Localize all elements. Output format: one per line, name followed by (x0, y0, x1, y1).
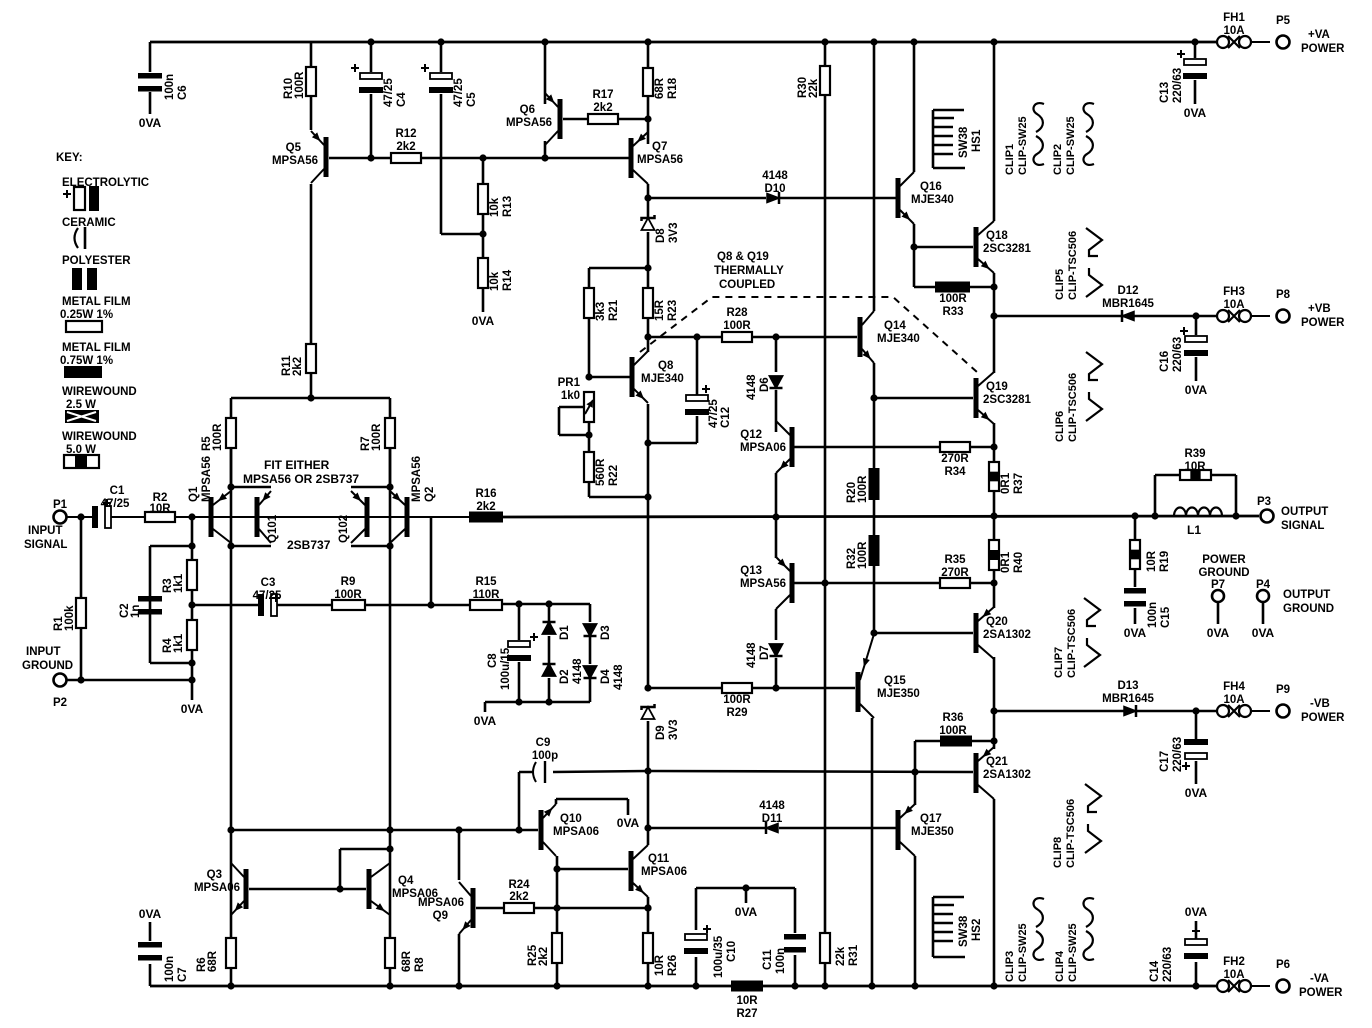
svg-text:110R: 110R (473, 589, 501, 601)
svg-text:0VA: 0VA (472, 314, 495, 328)
capacitor C5 47/25 (430, 73, 452, 79)
svg-text:100u/15: 100u/15 (500, 647, 512, 690)
svg-text:1k1: 1k1 (173, 573, 185, 593)
svg-text:220/63: 220/63 (1172, 737, 1184, 772)
svg-text:Q19: Q19 (986, 381, 1008, 393)
fuse FH4 10A (1217, 705, 1229, 717)
svg-text:100n: 100n (1147, 602, 1159, 628)
transistor Q101 2SB737 (255, 497, 260, 537)
resistor R21 3k3 (584, 288, 594, 318)
wire: Q10 collector to Q11 base y=869 (557, 868, 628, 871)
svg-text:R15: R15 (475, 576, 497, 588)
wire: R5 column (230, 398, 233, 487)
svg-text:10R: 10R (1184, 461, 1206, 473)
resistor R23 15R (643, 288, 653, 318)
wire: P2 to divider (67, 679, 192, 682)
heatsink HS1 (933, 110, 965, 168)
svg-text:C11: C11 (762, 949, 774, 970)
svg-text:+VB: +VB (1308, 303, 1331, 315)
capacitor C8 100u/15 (508, 641, 530, 647)
wire: Q13 collector to D7 to Q15 base node (775, 609, 778, 688)
transistor Q14 MJE340 (858, 317, 863, 357)
key wirewound 5.0W symbol (64, 455, 99, 468)
svg-text:D13: D13 (1117, 680, 1138, 692)
transistor Q12 MPSA06 (790, 427, 795, 467)
resistor R28 100R (722, 332, 752, 342)
svg-text:POWER: POWER (1301, 43, 1345, 55)
svg-text:CLIP-SW25: CLIP-SW25 (1065, 116, 1077, 175)
svg-text:POWER: POWER (1299, 987, 1343, 999)
svg-text:D1: D1 (559, 625, 571, 640)
svg-text:C17: C17 (1159, 751, 1171, 772)
svg-text:CLIP-SW25: CLIP-SW25 (1017, 116, 1029, 175)
resistor R20 100R (869, 468, 880, 500)
wire: x=874 column rail->Q14->R20->R32->Q15 (873, 42, 876, 633)
svg-text:CLIP5: CLIP5 (1054, 269, 1066, 300)
diode D7 4148 (770, 644, 783, 656)
terminal P7 (1212, 590, 1224, 602)
svg-text:10R: 10R (1146, 550, 1158, 572)
svg-text:R23: R23 (667, 300, 679, 321)
diode D1 4148 (543, 622, 556, 634)
wire: LTP tail y=398 (231, 397, 390, 400)
svg-text:POWER: POWER (1301, 317, 1345, 329)
svg-text:MJE340: MJE340 (877, 333, 920, 345)
svg-text:Q102: Q102 (338, 515, 350, 543)
svg-text:MJE340: MJE340 (641, 373, 684, 385)
resistor R34 270R (940, 442, 970, 452)
transistor Q2 MPSA56 (405, 497, 410, 537)
capacitor C12 47/25 (686, 395, 708, 401)
svg-text:C9: C9 (536, 737, 551, 749)
wire: Q9 base to R24 (476, 907, 648, 910)
svg-text:MPSA06: MPSA06 (418, 897, 464, 909)
svg-text:R28: R28 (726, 307, 748, 319)
transistor Q4 MPSA06 (367, 869, 372, 909)
resistor R29 100R (722, 683, 752, 693)
svg-text:D3: D3 (600, 625, 612, 640)
svg-text:270R: 270R (941, 567, 969, 579)
svg-text:CLIP7: CLIP7 (1053, 647, 1065, 678)
svg-text:MPSA06: MPSA06 (740, 442, 786, 454)
svg-text:D4: D4 (600, 669, 612, 684)
svg-text:C3: C3 (261, 577, 276, 589)
transistor Q15 MJE350 (856, 672, 861, 712)
svg-text:GROUND: GROUND (1283, 603, 1334, 615)
wire: y=772 wire from x=648 to Q21 base (648, 771, 973, 772)
svg-text:4148: 4148 (746, 374, 758, 400)
svg-text:P3: P3 (1257, 496, 1271, 508)
terminal P9 (1277, 705, 1290, 718)
svg-text:Q1: Q1 (188, 486, 200, 502)
terminal P8 (1277, 310, 1290, 323)
svg-text:MPSA56: MPSA56 (506, 117, 552, 129)
svg-text:CERAMIC: CERAMIC (62, 217, 116, 229)
svg-text:10A: 10A (1223, 25, 1244, 37)
svg-text:C7: C7 (177, 967, 189, 982)
key electrolytic symbol (63, 190, 71, 198)
svg-text:OUTPUT: OUTPUT (1281, 506, 1328, 518)
resistor R32 100R (869, 535, 880, 566)
svg-text:100R: 100R (371, 423, 383, 451)
terminal P4 (1257, 590, 1269, 602)
resistor R1 100k (76, 598, 86, 628)
svg-text:OUTPUT: OUTPUT (1283, 589, 1330, 601)
svg-text:100R: 100R (334, 589, 362, 601)
svg-text:100R: 100R (723, 694, 751, 706)
resistor R6 68R (226, 938, 236, 968)
wire: R21/PR1/R22 column x=589 (589, 268, 648, 497)
svg-text:SW38: SW38 (958, 126, 970, 158)
wire: Q15 collector column x=872 to rail (871, 718, 874, 986)
svg-text:Q8 & Q19: Q8 & Q19 (717, 251, 769, 263)
svg-text:Q5: Q5 (286, 142, 302, 154)
svg-text:CLIP-TSC506: CLIP-TSC506 (1066, 609, 1078, 678)
transistor Q17 MJE350 (896, 810, 901, 850)
diode D6 4148 (770, 376, 783, 388)
svg-text:2.5 W: 2.5 W (66, 399, 96, 411)
schematic wires: +VA top rail (150, 41, 1217, 44)
wire: PR1 wiper loop (559, 407, 589, 435)
resistor R19 10R (1130, 540, 1140, 569)
svg-text:FH2: FH2 (1223, 956, 1245, 968)
svg-text:0VA: 0VA (1185, 786, 1208, 800)
svg-text:R22: R22 (608, 465, 620, 486)
svg-text:0.25W 1%: 0.25W 1% (60, 309, 113, 321)
svg-text:D7: D7 (759, 645, 771, 660)
transistor Q1 MPSA56 (209, 497, 214, 537)
svg-text:0VA: 0VA (1185, 905, 1208, 919)
resistor R5 100R (226, 418, 236, 448)
svg-text:10A: 10A (1223, 299, 1244, 311)
svg-text:100R: 100R (723, 320, 751, 332)
fuse FH1 10A (1217, 36, 1229, 48)
svg-text:R33: R33 (942, 306, 963, 318)
svg-text:0VA: 0VA (1252, 626, 1275, 640)
svg-text:Q13: Q13 (740, 565, 762, 577)
diode D4 4148 (584, 666, 597, 678)
svg-text:2k2: 2k2 (292, 357, 304, 376)
svg-text:2SC3281: 2SC3281 (983, 394, 1032, 406)
svg-text:Q3: Q3 (207, 869, 222, 881)
svg-text:Q12: Q12 (740, 429, 762, 441)
svg-text:R17: R17 (592, 89, 613, 101)
svg-text:R18: R18 (667, 77, 679, 99)
capacitor C9 100p (533, 762, 536, 782)
key ceramic symbol (75, 228, 79, 248)
transistor Q10 MPSA06 (539, 810, 544, 850)
svg-text:0VA: 0VA (617, 816, 640, 830)
wire: bottom -VA rail (150, 985, 1217, 988)
svg-text:PR1: PR1 (558, 377, 581, 389)
svg-text:0VA: 0VA (474, 714, 497, 728)
svg-text:R29: R29 (726, 707, 747, 719)
svg-text:220/63: 220/63 (1172, 68, 1184, 103)
svg-text:2k2: 2k2 (593, 102, 612, 114)
svg-text:HS1: HS1 (971, 129, 983, 152)
svg-text:3V3: 3V3 (668, 720, 680, 740)
terminal P2 (54, 674, 67, 687)
wire: C6 branch from +VA rail (149, 42, 152, 114)
wire: -VB rail y=711 (994, 710, 1217, 713)
svg-text:SW38: SW38 (958, 915, 970, 947)
svg-text:15R: 15R (654, 299, 666, 321)
svg-text:MPSA56: MPSA56 (201, 456, 213, 502)
svg-text:220/63: 220/63 (1172, 337, 1184, 372)
svg-text:Q2: Q2 (424, 487, 436, 502)
terminal P1 (54, 511, 67, 524)
terminal P3 (1261, 510, 1274, 523)
wire: C7 branch to -VA rail (149, 922, 152, 986)
svg-text:INPUT: INPUT (26, 646, 61, 658)
capacitor C16 220/63 (1185, 336, 1207, 342)
svg-text:4148: 4148 (759, 800, 785, 812)
svg-text:0VA: 0VA (1207, 626, 1230, 640)
svg-text:10A: 10A (1223, 969, 1244, 981)
resistor R30 22k (820, 66, 830, 95)
svg-text:3V3: 3V3 (668, 223, 680, 243)
transistor Q6 MPSA56 (558, 99, 563, 139)
wire: C9 compensation branch (519, 771, 648, 830)
svg-text:MPSA56: MPSA56 (740, 578, 786, 590)
transistor Q16 MJE340 (896, 178, 901, 218)
svg-text:P1: P1 (53, 499, 68, 511)
svg-text:R34: R34 (944, 466, 966, 478)
svg-text:4148: 4148 (746, 642, 758, 668)
svg-text:47/25: 47/25 (253, 590, 282, 602)
resistor R17 2k2 (588, 114, 618, 124)
svg-text:MBR1645: MBR1645 (1102, 693, 1154, 705)
capacitor C13 220/63 (1184, 59, 1206, 65)
svg-text:100n: 100n (775, 948, 787, 974)
svg-text:C15: C15 (1160, 606, 1172, 628)
svg-text:POWER: POWER (1301, 712, 1345, 724)
svg-text:2SC3281: 2SC3281 (983, 243, 1032, 255)
svg-text:FH3: FH3 (1223, 286, 1245, 298)
svg-text:4148: 4148 (613, 664, 625, 690)
svg-text:100R: 100R (212, 423, 224, 451)
svg-text:C1: C1 (110, 485, 125, 497)
svg-text:Q6: Q6 (520, 104, 535, 116)
resistor R11 2k2 (306, 344, 316, 373)
wire: D11 wire y=828 (648, 827, 896, 830)
svg-text:MPSA56: MPSA56 (272, 155, 318, 167)
svg-text:10R: 10R (149, 503, 171, 515)
svg-text:R12: R12 (395, 128, 416, 140)
capacitor C2 1n (138, 596, 162, 602)
svg-text:Q11: Q11 (648, 853, 670, 865)
wire: LTP emitter ties (231, 486, 390, 489)
svg-text:CLIP3: CLIP3 (1004, 951, 1016, 982)
svg-text:100n: 100n (164, 956, 176, 982)
svg-text:GROUND: GROUND (1198, 567, 1249, 579)
diode D10 4148 (767, 194, 779, 203)
svg-text:+VA: +VA (1308, 29, 1330, 41)
diode D8 3V3 zener (642, 218, 655, 230)
resistor R14 10k (478, 258, 488, 288)
transistor Q13 MPSA56 (790, 563, 795, 603)
svg-text:0VA: 0VA (735, 905, 758, 919)
wire: C4 column (370, 42, 373, 158)
svg-text:D10: D10 (764, 183, 785, 195)
svg-text:INPUT: INPUT (28, 525, 63, 537)
svg-text:MPSA56: MPSA56 (411, 456, 423, 502)
svg-text:P5: P5 (1276, 15, 1291, 27)
svg-text:R16: R16 (475, 488, 496, 500)
resistor R37 0R1 (989, 462, 999, 491)
wire: D6 column x=776 from R28 node to Q12 (775, 337, 778, 432)
svg-text:47/25: 47/25 (708, 399, 720, 428)
wire: Q10 collector column x=557 through R25 (556, 856, 559, 986)
svg-text:0VA: 0VA (139, 116, 162, 130)
svg-text:POLYESTER: POLYESTER (62, 255, 131, 267)
svg-text:C8: C8 (487, 653, 499, 668)
transistor Q7 MPSA56 (629, 138, 634, 178)
svg-text:CLIP6: CLIP6 (1054, 411, 1066, 442)
resistor R22 560R (584, 452, 594, 482)
svg-text:2k2: 2k2 (538, 947, 550, 966)
wire: x=915 column R36 corner -> Q17 -> rail (915, 741, 940, 986)
svg-text:100R: 100R (294, 71, 306, 99)
svg-text:0.75W 1%: 0.75W 1% (60, 355, 113, 367)
svg-text:MPSA56 OR 2SB737: MPSA56 OR 2SB737 (243, 472, 359, 486)
svg-text:R37: R37 (1013, 473, 1025, 494)
svg-text:R39: R39 (1184, 448, 1205, 460)
svg-text:R8: R8 (414, 957, 426, 972)
svg-text:Q101: Q101 (267, 514, 279, 543)
capacitor C6 100n (138, 73, 162, 79)
fuse FH3 10A (1217, 310, 1229, 322)
svg-text:R21: R21 (608, 299, 620, 321)
capacitor C14 220/63 (1185, 939, 1207, 945)
resistor R3 1k1 (187, 560, 197, 590)
transistor Q5 MPSA56 (324, 137, 329, 177)
wire: C5 column crosses y=158 down to R13/R14 bottom (441, 42, 483, 234)
svg-text:0VA: 0VA (1184, 106, 1207, 120)
trimpot PR1 1k0 (584, 392, 594, 422)
svg-text:Q7: Q7 (652, 141, 667, 153)
key polyester symbol (72, 268, 82, 290)
svg-text:2SB737: 2SB737 (287, 538, 331, 552)
capacitor C11 100n (784, 934, 806, 940)
svg-text:L1: L1 (1187, 523, 1201, 537)
capacitor C7 100n (138, 942, 162, 948)
svg-text:100R: 100R (939, 725, 967, 737)
svg-text:100R: 100R (857, 541, 869, 569)
svg-text:Q14: Q14 (884, 320, 906, 332)
svg-text:Q18: Q18 (986, 230, 1008, 242)
svg-text:10A: 10A (1223, 694, 1244, 706)
svg-text:CLIP4: CLIP4 (1054, 950, 1066, 982)
wire: Q2 base T down to y=605 (430, 517, 433, 605)
transistor Q3 MPSA06 (244, 869, 249, 909)
wire: Q5/Q7 base wire y=158 (329, 157, 629, 160)
svg-text:2k2: 2k2 (509, 891, 528, 903)
wire: +VB rail y=316 (994, 315, 1217, 318)
wire: R19/C15 zobel branch (1134, 516, 1137, 624)
svg-text:100p: 100p (532, 750, 558, 762)
svg-text:-VB: -VB (1310, 698, 1330, 710)
diode D2 4148 (543, 664, 556, 676)
svg-text:3k3: 3k3 (595, 302, 607, 321)
diode D13 MBR1645 (1124, 707, 1136, 716)
wire: LTP collector ties (231, 545, 390, 548)
svg-text:FH1: FH1 (1223, 12, 1245, 24)
svg-text:C16: C16 (1159, 351, 1171, 372)
svg-text:D6: D6 (759, 377, 771, 392)
svg-text:D9: D9 (655, 725, 667, 740)
wire: Q20 base wire y=633 (874, 632, 973, 634)
svg-text:1n: 1n (130, 605, 142, 618)
transistor Q8 MJE340 (630, 357, 635, 397)
inductor L1 (1174, 508, 1222, 517)
svg-text:Q4: Q4 (398, 875, 414, 887)
diode D11 4148 (766, 824, 778, 833)
svg-text:R14: R14 (502, 269, 514, 291)
wire: Q6 emitter/collector column x=545 (544, 42, 547, 158)
svg-text:Q9: Q9 (433, 910, 448, 922)
svg-text:R19: R19 (1159, 551, 1171, 572)
svg-text:MPSA56: MPSA56 (637, 154, 683, 166)
svg-text:MPSA06: MPSA06 (553, 826, 599, 838)
svg-text:10k: 10k (489, 271, 501, 291)
wire: Q8 base wire (589, 376, 630, 379)
svg-text:-VA: -VA (1310, 973, 1329, 985)
transistor Q21 2SA1302 (974, 753, 979, 793)
svg-text:POWER: POWER (1202, 554, 1246, 566)
resistor R12 2k2 (391, 153, 421, 163)
svg-text:0VA: 0VA (1124, 626, 1147, 640)
resistor R7 100R (385, 418, 395, 448)
svg-text:MPSA06: MPSA06 (194, 882, 240, 894)
svg-text:22k: 22k (835, 946, 847, 966)
wire: R10-Q5-R11 column x=311 (310, 42, 313, 398)
svg-text:MPSA06: MPSA06 (641, 866, 687, 878)
svg-text:100n: 100n (164, 74, 176, 100)
svg-text:Q10: Q10 (560, 813, 582, 825)
transistor Q102 2SB737 (365, 497, 370, 537)
svg-text:P8: P8 (1276, 289, 1291, 301)
wire: R1 column (80, 517, 83, 680)
wire: C8/diode clamp ladder (485, 604, 590, 712)
svg-text:C12: C12 (720, 407, 732, 428)
wire: Q18 base (914, 246, 973, 249)
svg-text:D8: D8 (655, 228, 667, 243)
fuse FH2 10A (1217, 980, 1229, 992)
wire: Q12 base y=447 to R34 (794, 446, 994, 449)
resistor R8 68R (385, 938, 395, 968)
transistor Q9 MPSA06 (471, 888, 476, 928)
svg-text:2k2: 2k2 (396, 141, 415, 153)
svg-text:MJE350: MJE350 (911, 826, 954, 838)
svg-text:100u/35: 100u/35 (713, 935, 725, 978)
svg-text:10k: 10k (489, 197, 501, 217)
svg-text:R13: R13 (502, 196, 514, 217)
wire: Q12/Q13 emitter junction on output line (775, 473, 778, 558)
wire: R13 column (482, 158, 485, 312)
svg-text:0R1: 0R1 (1000, 472, 1012, 494)
svg-text:SIGNAL: SIGNAL (24, 539, 67, 551)
svg-text:D2: D2 (559, 669, 571, 684)
svg-text:R27: R27 (736, 1008, 757, 1020)
svg-text:68R: 68R (401, 950, 413, 972)
heatsink HS2 (933, 897, 965, 957)
svg-text:C5: C5 (466, 92, 478, 107)
svg-text:R24: R24 (508, 879, 530, 891)
svg-text:10R: 10R (736, 995, 758, 1007)
svg-text:10R: 10R (654, 954, 666, 976)
svg-text:C13: C13 (1159, 82, 1171, 103)
